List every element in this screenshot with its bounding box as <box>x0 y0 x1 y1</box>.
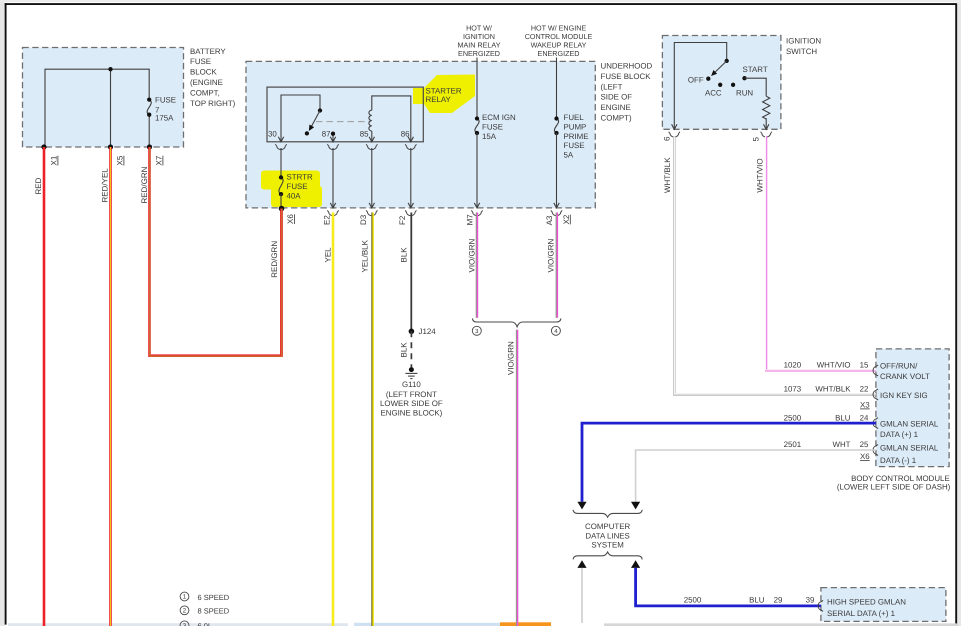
svg-text:ENERGIZED: ENERGIZED <box>458 49 500 58</box>
label pin 6 <box>663 136 672 141</box>
ign ACC contact <box>705 83 722 98</box>
svg-text:FUSE: FUSE <box>287 182 308 191</box>
terminal X5 dot <box>108 144 113 149</box>
label YEL/BLK <box>361 239 370 272</box>
wire strtr fuse to X6 <box>280 194 282 208</box>
svg-text:1073: 1073 <box>784 385 802 394</box>
wire relay86 down <box>410 148 412 208</box>
label RED/YEL <box>101 168 110 203</box>
svg-text:VIO/GRN: VIO/GRN <box>547 238 556 272</box>
svg-text:OFF/RUN/: OFF/RUN/ <box>880 361 918 370</box>
wire RED/GRN X7 to X6 <box>150 147 282 356</box>
fuse block bottom arrows <box>330 203 559 208</box>
gmlan connector arc <box>818 601 823 612</box>
relay mech link <box>316 121 371 123</box>
underhood fuse block label <box>601 62 653 123</box>
fuel pump fuse label <box>564 113 589 160</box>
svg-text:ECM IGN: ECM IGN <box>482 113 516 122</box>
svg-text:TOP RIGHT): TOP RIGHT) <box>190 99 236 108</box>
label YEL <box>324 247 333 263</box>
relay switch pivot <box>318 108 322 112</box>
battery fuse block box <box>23 48 184 148</box>
svg-text:WHT: WHT <box>833 440 851 449</box>
svg-text:6: 6 <box>663 136 672 141</box>
svg-text:IGN KEY SIG: IGN KEY SIG <box>880 391 928 400</box>
svg-text:175A: 175A <box>155 114 174 123</box>
svg-text:(LEFT: (LEFT <box>601 82 623 91</box>
svg-text:29: 29 <box>774 595 783 604</box>
svg-text:BODY CONTROL MODULE: BODY CONTROL MODULE <box>851 474 950 483</box>
svg-text:2: 2 <box>183 607 187 614</box>
svg-text:PRIME: PRIME <box>564 132 589 141</box>
svg-text:A3: A3 <box>545 215 554 225</box>
svg-text:FUSE: FUSE <box>564 141 585 150</box>
relay pin30 wire <box>281 95 320 142</box>
bcm caption <box>837 474 951 492</box>
svg-text:85: 85 <box>360 130 369 139</box>
hot w ignition label <box>457 24 500 58</box>
ign switch feed wire <box>674 43 726 130</box>
arrow wht down <box>631 502 640 510</box>
gmlan box label <box>827 598 906 618</box>
junction J124 <box>409 327 437 336</box>
bcm row 2500 labels <box>784 413 869 422</box>
relay bottom arrows <box>278 137 413 142</box>
svg-text:FUSE: FUSE <box>190 57 211 66</box>
ign bottom arcs <box>669 132 772 137</box>
svg-text:GMLAN SERIAL: GMLAN SERIAL <box>880 419 939 428</box>
ign OFF contact <box>688 75 711 84</box>
svg-text:SWITCH: SWITCH <box>786 47 817 56</box>
ign bottom arrows <box>672 124 769 129</box>
label X6 <box>286 214 295 224</box>
ground G110 label <box>380 380 443 418</box>
fuse 7 label <box>155 95 176 122</box>
svg-text:3: 3 <box>183 622 187 626</box>
svg-text:X7: X7 <box>155 155 164 165</box>
svg-text:BLK: BLK <box>400 342 409 358</box>
ign switch arm <box>712 61 727 75</box>
relay pin87 stub <box>331 132 335 142</box>
svg-text:ACC: ACC <box>705 88 722 97</box>
wire WHT to data lines <box>636 450 876 502</box>
svg-text:OFF: OFF <box>688 75 704 84</box>
ign START contact <box>742 65 767 80</box>
svg-text:X2: X2 <box>562 214 571 224</box>
ignition switch label <box>786 37 821 56</box>
wire 2500 labels <box>684 595 815 604</box>
svg-text:8 SPEED: 8 SPEED <box>198 607 230 616</box>
bottom edge strip <box>8 622 958 626</box>
svg-text:RELAY: RELAY <box>426 95 452 104</box>
svg-text:HIGH SPEED GMLAN: HIGH SPEED GMLAN <box>827 598 906 607</box>
arrow wht up <box>577 560 586 568</box>
bcm connector arcs <box>873 365 878 455</box>
wire BLU to data lines <box>582 423 876 502</box>
vio/grn brace <box>472 318 561 326</box>
legend 1 <box>180 592 230 602</box>
svg-text:VIO/GRN: VIO/GRN <box>468 238 477 272</box>
svg-text:STRTR: STRTR <box>287 173 313 182</box>
svg-text:E2: E2 <box>323 215 332 225</box>
wire BLK dashed to ground <box>410 331 412 367</box>
svg-text:D3: D3 <box>359 214 368 225</box>
svg-text:1: 1 <box>183 594 187 601</box>
wire VIO/GRN common <box>515 330 518 626</box>
svg-text:ENGINE BLOCK): ENGINE BLOCK) <box>380 409 442 418</box>
svg-text:RUN: RUN <box>736 88 753 97</box>
svg-text:X1: X1 <box>50 155 59 165</box>
ecm ign fuse label <box>482 113 516 141</box>
svg-text:J124: J124 <box>419 327 437 336</box>
svg-text:CRANK VOLT: CRANK VOLT <box>880 372 930 381</box>
battery block bus wire <box>45 69 149 147</box>
relay pin labels <box>268 130 410 139</box>
wire relay87 down <box>332 148 334 208</box>
wire VIO/GRN M7 <box>475 213 478 318</box>
svg-text:SYSTEM: SYSTEM <box>591 541 623 550</box>
bcm row 1020 labels <box>784 361 869 370</box>
legend 3 <box>180 621 212 626</box>
svg-text:FUEL: FUEL <box>564 113 585 122</box>
svg-text:F2: F2 <box>398 215 407 225</box>
svg-text:BLU: BLU <box>835 413 851 422</box>
svg-text:DATA (+) 1: DATA (+) 1 <box>880 430 918 439</box>
strtr fuse label <box>287 173 313 201</box>
svg-text:PUMP: PUMP <box>564 122 587 131</box>
relay switch arm <box>305 111 320 136</box>
svg-text:X6: X6 <box>860 452 870 461</box>
svg-text:GMLAN SERIAL: GMLAN SERIAL <box>880 443 939 452</box>
label RED/GRN <box>140 166 149 203</box>
svg-text:24: 24 <box>860 413 869 422</box>
label X1 <box>50 155 59 165</box>
wire YEL <box>332 213 335 626</box>
svg-text:FUSE BLOCK: FUSE BLOCK <box>601 72 652 81</box>
arrow blu up <box>631 560 640 568</box>
ign RUN contact <box>731 83 753 98</box>
wire VIO/GRN A3 <box>555 213 558 318</box>
svg-text:WHT/BLK: WHT/BLK <box>663 157 672 193</box>
wire ecm ign down <box>476 133 478 208</box>
ign resistor to pin5 <box>765 118 767 129</box>
svg-text:15: 15 <box>860 361 869 370</box>
svg-text:5A: 5A <box>564 151 574 160</box>
wire WHT/VIO <box>766 136 876 371</box>
svg-text:BLOCK: BLOCK <box>190 68 217 77</box>
wire WHT/BLK <box>674 136 876 395</box>
ign switch pivot <box>725 59 729 63</box>
svg-text:RED/GRN: RED/GRN <box>140 166 149 203</box>
underhood fuse block box <box>246 61 595 208</box>
label X2 <box>562 214 571 224</box>
label D3 <box>359 214 368 225</box>
svg-text:2500: 2500 <box>684 595 702 604</box>
label X5 <box>116 155 125 165</box>
svg-text:M7: M7 <box>465 214 474 226</box>
arrow blu down <box>577 502 586 510</box>
svg-text:22: 22 <box>860 385 869 394</box>
data lines brace upper <box>573 510 642 517</box>
svg-text:YEL/BLK: YEL/BLK <box>361 239 370 272</box>
fuse block bottom arcs <box>327 210 562 215</box>
starter relay box <box>267 87 423 142</box>
ign start wire to resistor <box>745 78 767 96</box>
svg-text:RED: RED <box>34 177 43 194</box>
svg-text:DATA LINES: DATA LINES <box>585 531 629 540</box>
svg-text:COMPT): COMPT) <box>601 114 632 123</box>
label BLK <box>400 247 409 263</box>
svg-text:39: 39 <box>806 595 815 604</box>
svg-text:WHT/VIO: WHT/VIO <box>817 361 851 370</box>
legend 2 <box>180 606 230 616</box>
svg-text:FUSE: FUSE <box>482 122 503 131</box>
high speed gmlan box <box>821 588 946 622</box>
svg-text:LOWER SIDE OF: LOWER SIDE OF <box>380 399 443 408</box>
label VIO/GRN common <box>506 341 515 375</box>
svg-text:87: 87 <box>322 130 331 139</box>
label A3 <box>545 215 554 225</box>
wire WHT below <box>581 568 583 623</box>
body control module box <box>876 349 949 467</box>
svg-text:RED/GRN: RED/GRN <box>270 241 279 278</box>
svg-text:15A: 15A <box>482 132 497 141</box>
svg-text:DATA (-) 1: DATA (-) 1 <box>880 456 916 465</box>
svg-text:SERIAL DATA (+) 1: SERIAL DATA (+) 1 <box>827 609 895 618</box>
label WHT/VIO <box>756 158 765 192</box>
ignition switch box <box>662 36 781 130</box>
bcm row 2501 labels <box>784 440 871 461</box>
data lines brace lower <box>573 552 642 559</box>
svg-text:WHT/VIO: WHT/VIO <box>756 158 765 192</box>
svg-text:1020: 1020 <box>784 361 802 370</box>
computer data lines label <box>585 522 630 549</box>
svg-text:START: START <box>743 65 768 74</box>
wire BLK <box>410 213 412 332</box>
label pin 5 <box>752 137 761 142</box>
fuel pump fuse 5A <box>554 116 558 135</box>
svg-text:X6: X6 <box>286 214 295 224</box>
wire ecm ign feed <box>476 58 478 119</box>
label RED <box>34 177 43 194</box>
svg-text:5: 5 <box>752 137 761 142</box>
bcm pin texts <box>880 361 939 465</box>
svg-text:COMPT,: COMPT, <box>190 88 220 97</box>
wire fuel pump down <box>556 133 558 208</box>
svg-text:30: 30 <box>268 130 277 139</box>
circled 3 <box>472 326 481 335</box>
svg-text:COMPUTER: COMPUTER <box>585 522 630 531</box>
label M7 <box>465 214 474 226</box>
svg-text:(LEFT FRONT: (LEFT FRONT <box>386 390 437 399</box>
battery bus junction <box>108 67 112 71</box>
svg-text:YEL: YEL <box>324 247 333 263</box>
wire fuel pump feed <box>556 58 558 119</box>
svg-text:6 SPEED: 6 SPEED <box>198 593 230 602</box>
svg-text:BLU: BLU <box>749 595 765 604</box>
starter relay label <box>426 86 462 104</box>
wire YEL/BLK <box>371 213 374 626</box>
terminal X1 dot <box>41 144 46 149</box>
svg-text:X3: X3 <box>860 401 870 410</box>
svg-text:SIDE OF: SIDE OF <box>601 93 633 102</box>
fuse 7 175A <box>147 97 151 116</box>
svg-text:IGNITION: IGNITION <box>786 37 821 46</box>
wire BLU to gmlan <box>636 568 821 606</box>
hot w engine label <box>525 24 593 58</box>
highlight strtr fuse <box>261 171 322 208</box>
svg-text:(ENGINE: (ENGINE <box>190 78 223 87</box>
relay coil <box>369 96 411 142</box>
label VIO/GRN A3 <box>547 238 556 272</box>
svg-text:2501: 2501 <box>784 440 802 449</box>
wire RED <box>43 147 46 626</box>
svg-text:BATTERY: BATTERY <box>190 47 226 56</box>
svg-text:ENERGIZED: ENERGIZED <box>538 49 580 58</box>
bcm row 1073 labels <box>784 385 871 410</box>
svg-text:X5: X5 <box>116 155 125 165</box>
circled 4 <box>551 326 560 335</box>
svg-text:BLK: BLK <box>400 247 409 263</box>
svg-text:G110: G110 <box>402 380 421 389</box>
terminal X7 dot <box>147 144 152 149</box>
battery fuse block label <box>190 47 236 108</box>
label E2 <box>323 215 332 225</box>
ecm ign fuse 15A <box>475 116 479 135</box>
label F2 <box>398 215 407 225</box>
svg-text:ENGINE: ENGINE <box>601 103 631 112</box>
svg-text:2500: 2500 <box>784 413 802 422</box>
highlight starter relay <box>413 75 475 114</box>
label BLK 2 <box>400 342 409 358</box>
wire RED/GRN X6 <box>280 209 283 356</box>
svg-text:UNDERHOOD: UNDERHOOD <box>601 62 653 71</box>
junction X6 dot <box>279 206 285 212</box>
label X7 <box>155 155 164 165</box>
svg-text:(LOWER LEFT SIDE OF DASH): (LOWER LEFT SIDE OF DASH) <box>837 483 951 492</box>
ign resistor <box>763 96 770 119</box>
ground G110 <box>405 367 417 379</box>
svg-text:RED/YEL: RED/YEL <box>101 168 110 203</box>
svg-text:6.0L: 6.0L <box>198 622 213 626</box>
svg-text:40A: 40A <box>287 191 302 200</box>
wire relay85 down <box>371 148 373 208</box>
svg-text:STARTER: STARTER <box>426 86 462 95</box>
wire relay30 to strtr fuse <box>280 148 282 177</box>
strtr fuse 40A <box>279 175 283 196</box>
label WHT/BLK <box>663 157 672 193</box>
svg-text:25: 25 <box>860 440 869 449</box>
relay bottom connector arcs <box>275 144 416 149</box>
wire RED/YEL <box>109 147 112 626</box>
svg-text:VIO/GRN: VIO/GRN <box>506 341 515 375</box>
label RED/GRN 2 <box>270 241 279 278</box>
svg-text:FUSE: FUSE <box>155 95 176 104</box>
label VIO/GRN M7 <box>468 238 477 272</box>
svg-text:WHT/BLK: WHT/BLK <box>815 385 851 394</box>
